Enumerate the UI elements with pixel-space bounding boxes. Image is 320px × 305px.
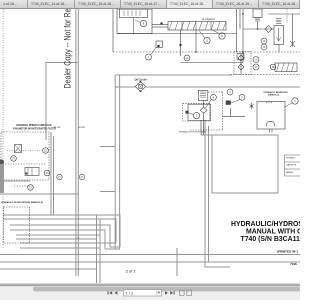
wire top right dotted (286, 9, 288, 23)
wire top box bottom (117, 33, 237, 35)
wire y62 stub (181, 62, 244, 64)
callout 2 (239, 94, 245, 100)
callout 1b (193, 112, 199, 118)
solenoid box on rail (237, 54, 244, 60)
oil cooler diamond (135, 82, 146, 92)
check valve column dashed box (234, 52, 251, 75)
svg-text:FILTER: FILTER (79, 127, 86, 129)
callout 14 (184, 55, 190, 61)
wire spool drop 1 (180, 30, 182, 56)
wire fan riser pair (50, 132, 52, 215)
reservoir tank T1 (257, 102, 285, 130)
filter relief spring valve (198, 91, 208, 101)
callout 3b (227, 89, 233, 95)
svg-text:HYDRAULIC FILTER RETURN (MANI: HYDRAULIC FILTER RETURN (MANIFOLD) (1, 201, 43, 204)
pressure valve V2 (274, 26, 284, 45)
dashed rail y74 (230, 74, 300, 76)
wire right drop pair (205, 120, 230, 267)
solenoid valve U8 body (120, 9, 148, 18)
svg-text:16: 16 (255, 59, 258, 62)
wire reservoir to loop (201, 134, 212, 136)
callout 8 (140, 20, 146, 26)
relief valve RV1 (253, 9, 262, 18)
svg-text:7196: 7196 (290, 262, 297, 266)
callout 16b (253, 57, 259, 63)
fitting F3 (250, 103, 254, 109)
title block inner line (0, 268, 97, 270)
svg-text:FAN MOTOR W/ INTEGRATED FILTER: FAN MOTOR W/ INTEGRATED FILTER (13, 128, 56, 131)
svg-text:17: 17 (255, 66, 258, 69)
filter manifold dashed box (183, 103, 211, 121)
wire cooler line left (115, 86, 135, 88)
port square (186, 111, 188, 113)
legend box (285, 155, 301, 176)
svg-text:2 of 2: 2 of 2 (126, 269, 136, 273)
svg-text:HYDRAULIC/HYDROSTATIC: HYDRAULIC/HYDROSTATIC (231, 221, 300, 228)
pump dashed enclosure (190, 92, 223, 130)
callout 17 (253, 64, 259, 70)
fan assembly dashed box (1, 132, 49, 180)
wire staircase h5 (16, 234, 100, 236)
svg-text:7: 7 (148, 55, 150, 59)
svg-text:23: 23 (46, 172, 49, 175)
wire staircase inner box (20, 242, 116, 244)
svg-text:27: 27 (81, 176, 84, 179)
callout 16 (261, 38, 267, 44)
svg-text:1: 1 (196, 114, 198, 118)
callout 27 pair (57, 174, 62, 179)
loop rectangle R1 (212, 135, 278, 193)
svg-text:4: 4 (213, 95, 215, 99)
fan motor square (15, 145, 22, 153)
wire staircase h3 (10, 225, 110, 247)
callout 1 (292, 98, 298, 104)
small fitting F2 (226, 101, 231, 105)
svg-text:MANUAL WITH CONN: MANUAL WITH CONN (246, 229, 300, 236)
svg-text:13: 13 (221, 35, 224, 38)
callout 25 (43, 148, 49, 154)
wire spool drop 2 (195, 30, 197, 52)
svg-text:11: 11 (206, 40, 209, 43)
wire staircase h1 (3, 215, 120, 247)
svg-text:FILTER: FILTER (54, 127, 61, 129)
check valve diamond P1 (200, 107, 207, 113)
wire staircase h2 (3, 219, 116, 243)
callout 24 (11, 156, 17, 162)
check valve CV3 (238, 64, 244, 70)
solenoid S7 (156, 41, 163, 48)
svg-text:25: 25 (44, 150, 47, 153)
fan valve block (25, 168, 39, 176)
wire staircase h6 (16, 238, 97, 240)
clipped cylinder at edge (0, 160, 4, 165)
wire vertical rail D (119, 75, 121, 249)
callout 11 (204, 37, 210, 43)
wire cooler feed (115, 74, 232, 76)
svg-text:24: 24 (12, 158, 15, 161)
wire reservoir bottom (200, 120, 202, 135)
svg-text:8: 8 (143, 22, 145, 26)
svg-text:MANUAL: MANUAL (286, 171, 293, 174)
wire hline y191 (100, 191, 115, 193)
wire right staircase (223, 108, 245, 116)
fan dotted link (7, 150, 42, 152)
svg-text:HYDRAULIC FILTER (IN TANK): HYDRAULIC FILTER (IN TANK) (179, 131, 206, 134)
wire main vertical rail B (77, 9, 79, 276)
svg-text:M: M (272, 65, 275, 69)
svg-text:1: 1 (294, 99, 296, 103)
callout 22 (28, 185, 34, 191)
hydrostatic motor block M1 (275, 63, 297, 72)
wire dashed y186 (14, 185, 30, 187)
bottom dashed box (4, 207, 30, 243)
top assembly enclosure dashed (112, 9, 114, 52)
svg-text:LH Speed: LH Speed (202, 17, 215, 21)
svg-text:2: 2 (241, 95, 243, 99)
svg-text:1 / 2: 1 / 2 (126, 290, 135, 295)
svg-text:T740 (S/N B3CA11: T740 (S/N B3CA11 (241, 236, 301, 243)
check valve CV2 (240, 54, 242, 74)
svg-text:3: 3 (229, 90, 231, 94)
filter solid box (188, 104, 210, 121)
svg-text:22: 22 (29, 187, 32, 190)
wire hline y194 (0, 193, 78, 195)
callout 7 (146, 54, 152, 60)
svg-text:Dealer Copy -- Not for Re: Dealer Copy -- Not for Re (63, 9, 73, 89)
check valve diamond CV1 (265, 26, 272, 33)
restrictor X1 (292, 14, 294, 41)
wire vertical x243 (242, 9, 244, 63)
wire hline y146 (100, 146, 115, 148)
callout 13 (219, 33, 225, 39)
sheet bottom border (0, 254, 300, 256)
callout 23 (44, 170, 50, 176)
sheet left border dashed (2, 9, 4, 248)
callout 4 (211, 94, 217, 100)
wire vertical x240 (239, 9, 241, 29)
title block divider (96, 215, 98, 283)
wire dashed y164 (0, 163, 46, 165)
wire spool feed (152, 24, 168, 26)
callout 18 (261, 44, 267, 50)
wire diamond down (202, 113, 204, 135)
wire staircase bottoms (105, 248, 120, 250)
wire staircase h4 (10, 230, 105, 249)
svg-text:27: 27 (58, 176, 61, 179)
svg-text:(PRINTED 08-1: (PRINTED 08-1 (277, 250, 298, 254)
svg-text:(VIEW B+C): (VIEW B+C) (268, 95, 279, 97)
valve block top-left box (117, 9, 152, 34)
wire hline y29 (243, 28, 274, 30)
junction dot (180, 44, 182, 46)
junction dot (161, 23, 163, 25)
wire cooler line right (146, 86, 300, 88)
svg-text:HYDRAULIC: HYDRAULIC (286, 157, 297, 160)
wire hline y181 (2, 180, 30, 182)
svg-text:14: 14 (186, 57, 189, 60)
svg-text:HYDRAULIC RESERVOIR: HYDRAULIC RESERVOIR (264, 91, 289, 94)
title block divider right (176, 248, 178, 276)
svg-text:16: 16 (263, 40, 266, 43)
wire main vertical rail A (75, 9, 77, 276)
svg-text:18: 18 (263, 46, 266, 49)
svg-text:CHARGE PR: CHARGE PR (286, 164, 297, 167)
wire horizontal y62 (46, 63, 78, 141)
wire valve to diamond (202, 101, 204, 108)
wire vertical rail C (114, 75, 116, 249)
spool valve bank SV1 (168, 22, 226, 31)
